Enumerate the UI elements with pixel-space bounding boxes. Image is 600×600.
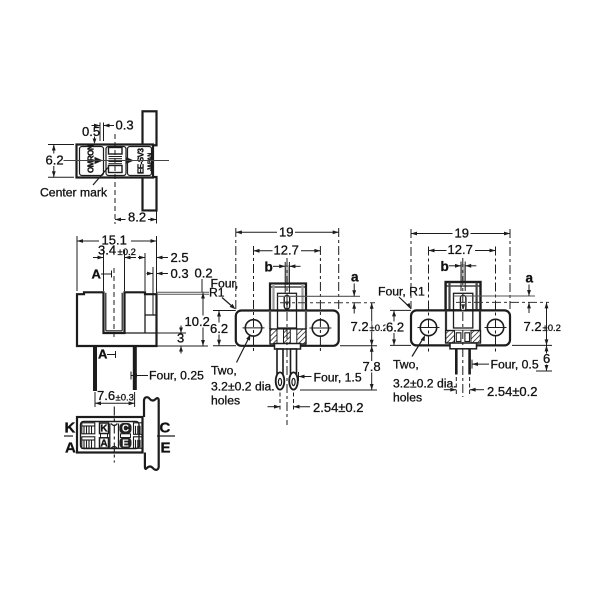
- svg-text:OMRON: OMRON: [87, 144, 96, 173]
- svg-text:6.2: 6.2: [386, 320, 404, 335]
- svg-text:2.5: 2.5: [171, 250, 189, 265]
- svg-text:E: E: [122, 438, 129, 449]
- svg-text:12.7: 12.7: [274, 243, 299, 258]
- svg-text:JAPAN: JAPAN: [148, 153, 154, 171]
- svg-text:6: 6: [543, 351, 550, 366]
- svg-text:3.2±0.2 dia.: 3.2±0.2 dia.: [393, 377, 457, 391]
- svg-text:7.6: 7.6: [97, 388, 115, 403]
- svg-text:holes: holes: [393, 391, 422, 405]
- svg-text:holes: holes: [211, 394, 240, 408]
- svg-text:0.3: 0.3: [171, 266, 189, 281]
- svg-text:0.3: 0.3: [116, 118, 134, 133]
- svg-text:10.2: 10.2: [185, 314, 210, 329]
- svg-text:Four, R1: Four, R1: [378, 285, 425, 299]
- svg-text:C: C: [122, 424, 129, 435]
- svg-text:±0.2: ±0.2: [543, 323, 561, 334]
- svg-text:a: a: [351, 270, 359, 285]
- svg-text:E: E: [161, 440, 171, 457]
- svg-text:3.4: 3.4: [98, 243, 116, 258]
- svg-text:8.2: 8.2: [128, 210, 146, 225]
- svg-text:A: A: [100, 438, 107, 449]
- svg-text:7.2: 7.2: [524, 319, 542, 334]
- svg-text:A: A: [98, 347, 108, 362]
- svg-text:2.54±0.2: 2.54±0.2: [313, 400, 364, 415]
- svg-text:0.5: 0.5: [82, 124, 100, 139]
- svg-text:7.8: 7.8: [363, 359, 381, 374]
- svg-text:3: 3: [177, 331, 184, 346]
- svg-text:a: a: [526, 271, 534, 286]
- svg-text:Four, 1.5: Four, 1.5: [314, 371, 362, 385]
- svg-text:19: 19: [455, 226, 469, 241]
- svg-text:6.2: 6.2: [46, 153, 64, 168]
- svg-text:K: K: [100, 424, 108, 435]
- svg-text:±0.2: ±0.2: [118, 247, 136, 258]
- svg-text:Two,: Two,: [211, 364, 237, 378]
- svg-text:Center mark: Center mark: [40, 186, 108, 200]
- svg-text:2.54±0.2: 2.54±0.2: [487, 384, 538, 399]
- svg-text:K: K: [65, 420, 76, 437]
- svg-text:3.2±0.2 dia.: 3.2±0.2 dia.: [211, 380, 275, 394]
- svg-text:12.7: 12.7: [448, 242, 473, 257]
- svg-text:A: A: [65, 440, 76, 457]
- svg-text:C: C: [160, 420, 171, 437]
- svg-text:b: b: [265, 260, 273, 275]
- svg-text:±0.3: ±0.3: [116, 393, 134, 404]
- svg-text:7.2: 7.2: [351, 319, 369, 334]
- svg-text:A: A: [92, 267, 102, 282]
- svg-text:Two,: Two,: [393, 358, 419, 372]
- svg-text:b: b: [441, 259, 449, 274]
- svg-text:Four, 0.5: Four, 0.5: [491, 358, 539, 372]
- svg-text:6.2: 6.2: [210, 321, 228, 336]
- svg-text:Four, 0.25: Four, 0.25: [149, 369, 204, 383]
- svg-text:19: 19: [279, 225, 293, 240]
